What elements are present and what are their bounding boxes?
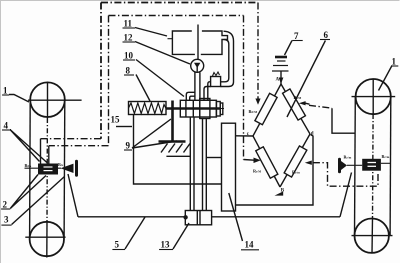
right sensor block [362, 159, 381, 171]
ECU outer dash-dot enclosure left [100, 3, 102, 139]
resistor Rrm lower-right [284, 146, 307, 177]
anchor ground bar [159, 140, 186, 143]
bridge arm A-C [253, 84, 281, 136]
wheel left sidewall right [63, 100, 66, 238]
leader label 12 [135, 42, 190, 65]
signal wire dash-dot to left sensor lower [49, 145, 109, 147]
right sensor rod right [381, 162, 391, 164]
arrow to resistor RrM [244, 159, 255, 162]
wheel left center line solid top [47, 82, 49, 118]
svg-text:Rf/M: Rf/M [294, 95, 302, 100]
left sensor rod [25, 167, 62, 169]
valve inlet elbow inner [190, 96, 195, 100]
wheel left axle cross horizontal bottom [25, 236, 65, 238]
wheel right tire bottom circle [355, 219, 389, 253]
svg-text:15: 15 [111, 115, 121, 125]
relief valve body [211, 77, 221, 87]
junction dot [183, 215, 187, 219]
spring 8 zigzag [129, 103, 167, 114]
tank right pipe outer [221, 31, 234, 86]
svg-text:BA: BA [58, 162, 64, 167]
right sensor horn bell [338, 159, 341, 171]
wheel right axle cross horizontal top [352, 96, 396, 98]
svg-text:B: B [281, 189, 285, 194]
svg-text:11: 11 [124, 19, 133, 29]
wheel left center line solid bottom [46, 222, 48, 258]
anchor hatch 4 [184, 144, 191, 153]
spring 8 housing [129, 102, 167, 115]
leader label 4 lines [10, 130, 48, 164]
label Rrm arrow lower-right [305, 161, 312, 165]
resistor Rfm upper-left [255, 93, 277, 124]
tank right pipe inner [221, 40, 229, 82]
svg-text:A: A [276, 78, 280, 83]
label Rf arrow upper-right [299, 101, 306, 105]
valve land line 2 [192, 100, 194, 117]
arrow to resistor Rfm [255, 99, 260, 105]
svg-text:Rr/m: Rr/m [382, 154, 390, 159]
svg-text:4: 4 [4, 121, 9, 131]
svg-text:2: 2 [3, 200, 8, 210]
valve land line 1 [185, 100, 187, 117]
signal wire left sensor drop inner [48, 146, 50, 164]
svg-text:8: 8 [126, 66, 131, 76]
valve center section [200, 99, 210, 119]
wheel right center dash-dot [372, 114, 375, 218]
svg-text:1: 1 [3, 86, 8, 96]
ECU inner dash-dot box left [108, 16, 110, 146]
leader label 6 strike-through [287, 41, 325, 118]
valve housing box left edge [134, 115, 222, 185]
wheel right sidewall left [354, 97, 357, 236]
node A arrowhead [279, 78, 284, 84]
relief valve spring squiggle [213, 72, 220, 76]
valve right cap [216, 102, 220, 117]
svg-text:3: 3 [4, 215, 9, 225]
ECU outer dash-dot enclosure top [101, 2, 258, 4]
valve spool rod [166, 107, 220, 110]
wheel left tire top circle [30, 82, 65, 117]
svg-text:13: 13 [161, 240, 171, 250]
pump 12 circle [191, 59, 204, 72]
lever bar [171, 101, 174, 142]
svg-text:RFA: RFA [25, 163, 33, 168]
bridge arm A-D [281, 84, 310, 134]
wheel left axle cross horizontal top [28, 99, 82, 101]
resistor RrM lower-left [256, 147, 278, 178]
horn 3 bell [75, 161, 78, 175]
dash-dot wire to right wheel upper [309, 105, 332, 108]
right sensor rod left [347, 164, 362, 166]
wheel right center line solid top [372, 79, 374, 114]
master cylinder divider [196, 211, 198, 225]
bridge arm C-B [253, 136, 280, 187]
dash-dot wire to right sensor lower [313, 163, 378, 187]
svg-text:Rr/m: Rr/m [344, 155, 352, 160]
signal wire dash-dot to left sensor upper [41, 138, 102, 140]
svg-text:Rr/m: Rr/m [292, 169, 300, 174]
left sensor block 2 [38, 164, 58, 175]
wheel right sidewall right [389, 97, 392, 236]
bridge excitation battery 7 [272, 57, 289, 71]
leader label 8 [136, 75, 150, 102]
amplifier box 14 [222, 123, 236, 211]
battery to node A wire [280, 71, 282, 84]
tiny component labels [25, 78, 390, 194]
leader label 3 [12, 177, 65, 225]
control valve 10 body [180, 100, 216, 117]
svg-text:7: 7 [294, 31, 299, 41]
relief valve outlet pipe inner [208, 82, 211, 101]
leader label 13 [173, 223, 189, 249]
tank divider line [197, 25, 199, 60]
stub wire left of pipes [166, 155, 190, 157]
node D wire down [236, 135, 313, 206]
wheel left sidewall left [29, 100, 32, 238]
leader label 1 right [379, 66, 393, 91]
wheel right axle cross horizontal bottom [352, 235, 393, 237]
wheel left center dash-dot [46, 118, 48, 222]
master cylinder 13 [185, 211, 211, 225]
pump outlet pipe double line [194, 72, 196, 100]
horn 3 cone [61, 164, 74, 173]
valve land line 3 [199, 99, 201, 119]
leader label 15 line [116, 126, 132, 128]
anchor hatch 1 [161, 144, 168, 153]
brake pipe pair right [202, 119, 204, 211]
leader label 14 [229, 193, 243, 241]
signal wire left sensor drop outer [40, 139, 42, 164]
ECU inner dash-dot box right [243, 16, 245, 160]
anchor hatch 3 [176, 144, 183, 153]
svg-text:6: 6 [324, 30, 329, 40]
ECU outer dash-dot enclosure right [257, 3, 259, 100]
rod extension thin [220, 108, 225, 110]
leader label 1 left [9, 95, 29, 103]
resistor Rf upper-right [283, 89, 306, 120]
wheel right center line solid bottom [371, 218, 374, 254]
right sensor horn cone [341, 161, 347, 170]
svg-text:14: 14 [245, 240, 255, 250]
valve inlet elbow outer [186, 92, 195, 100]
node C wire to amplifier [236, 135, 254, 137]
svg-text:d: d [311, 132, 314, 137]
svg-text:Rr/M: Rr/M [253, 169, 261, 174]
svg-text:5: 5 [115, 240, 120, 250]
leader label 7 [285, 41, 293, 56]
pedal line 5 left diagonal [68, 174, 78, 217]
leader label 11 [135, 28, 167, 37]
leader label 5 [125, 217, 145, 249]
pump arrow [194, 63, 200, 68]
anchor hatch 2 [169, 144, 176, 153]
svg-text:1: 1 [392, 57, 397, 67]
svg-text:10: 10 [124, 51, 134, 61]
leader label 9 lines [132, 119, 177, 148]
reservoir tank 11 [172, 31, 227, 54]
brake pipe pair left [189, 117, 191, 211]
leader label 10 [136, 60, 184, 97]
svg-text:RF/M: RF/M [249, 109, 258, 114]
svg-text:12: 12 [124, 33, 134, 43]
wheel right tire top circle [356, 79, 391, 114]
ECU inner dash-dot box top [109, 15, 244, 17]
svg-text:9: 9 [126, 141, 131, 151]
bridge arm D-B [280, 134, 310, 187]
stub wire to amplifier box [206, 157, 221, 159]
node B ground wedge [275, 191, 284, 195]
line 5 right diagonal to right sensor [340, 173, 352, 217]
leader label 2 lines [10, 175, 46, 209]
wheel left tire bottom circle [30, 222, 64, 256]
relief valve outlet pipe outer [204, 87, 211, 101]
pedal line 5 [78, 216, 340, 218]
